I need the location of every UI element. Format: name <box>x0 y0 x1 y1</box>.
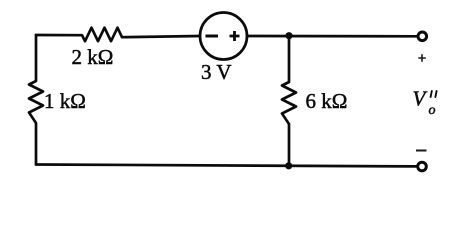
svg-text:o: o <box>429 103 436 118</box>
svg-text:1 kΩ: 1 kΩ <box>44 89 86 113</box>
svg-text:3 V: 3 V <box>201 60 232 84</box>
svg-text:6 kΩ: 6 kΩ <box>306 89 348 113</box>
svg-text:2 kΩ: 2 kΩ <box>72 45 114 69</box>
svg-text:V: V <box>413 87 428 111</box>
